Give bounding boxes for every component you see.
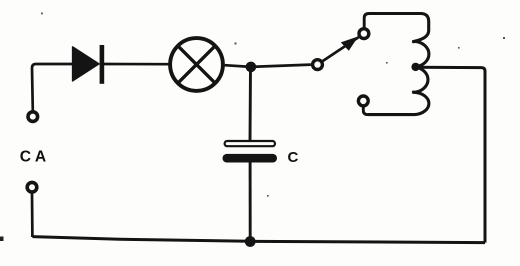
node: junction on bottom rail <box>245 236 256 247</box>
wire: diode to lamp <box>104 63 169 66</box>
svg-text:C: C <box>288 149 299 166</box>
switch S1 pole contact <box>313 60 323 70</box>
lamp LP1 <box>170 38 223 91</box>
terminal CA lower <box>27 182 37 192</box>
switch S1 arm with arrow <box>323 36 359 61</box>
wire: bottom rail <box>32 237 485 243</box>
svg-text:CA: CA <box>20 149 50 166</box>
terminal CA upper <box>28 112 38 122</box>
coil neck ink knobs <box>412 40 415 43</box>
wire: coil tap to right rail and down to bottom rail <box>416 67 485 242</box>
switch S1 lower throw contact <box>358 96 368 106</box>
node: junction after lamp <box>246 62 257 73</box>
node: coil tap dot <box>411 63 419 71</box>
capacitor C bottom plate <box>223 154 278 163</box>
wire: junction down to capacitor top plate <box>249 67 252 141</box>
diode D1 <box>73 45 105 84</box>
wire: lamp to junction to switch pole <box>225 65 311 67</box>
capacitor C top plate <box>225 141 275 146</box>
wire: lower terminal down to bottom rail <box>31 193 34 237</box>
wire: lower throw contact down to coil bottom <box>363 107 368 115</box>
inductor L1 (tapped coil, scalloped loops) <box>368 14 429 115</box>
wire: upper throw contact up to coil top <box>364 14 369 28</box>
wire: AC upper terminal riser and top-left segment <box>32 64 73 110</box>
switch S1 upper throw contact <box>359 29 369 39</box>
wire: capacitor to bottom rail <box>249 163 252 242</box>
